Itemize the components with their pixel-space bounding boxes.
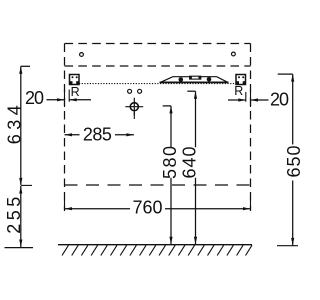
washbasin profile <box>161 77 228 83</box>
countertop dotted line <box>79 83 236 85</box>
dim 650 bottom tick <box>277 245 298 247</box>
dim 760 end ticks <box>65 199 251 210</box>
bracket R left <box>70 75 80 85</box>
svg-text:255: 255 <box>4 197 24 234</box>
ground hatching <box>62 245 252 255</box>
arrow 650 up <box>291 74 294 82</box>
arrow 580 up <box>169 106 172 114</box>
ground line <box>58 244 252 246</box>
svg-text:580: 580 <box>160 146 180 179</box>
svg-text:634: 634 <box>4 105 24 144</box>
arrow 760 right <box>243 207 251 210</box>
dim 20 left: shafts <box>47 99 92 101</box>
arrow 634 up <box>19 66 22 74</box>
dim 285 right extension <box>133 112 135 119</box>
svg-text:20: 20 <box>25 88 44 108</box>
faucet supply circle right <box>138 89 142 93</box>
basin overflow slot <box>190 76 201 79</box>
arrow 634 down <box>19 178 22 186</box>
drain crosshair <box>130 103 138 111</box>
small hole circle top-left <box>80 53 84 57</box>
bracket R right <box>236 75 246 85</box>
dim 760 line <box>65 208 251 210</box>
cabinet left dashed edge <box>64 44 66 212</box>
arrow 285 right <box>126 133 134 136</box>
arrow 580 down <box>169 237 172 245</box>
dim 640 vertical line <box>195 91 197 244</box>
dim 285 line <box>65 134 134 136</box>
arrow 650 down <box>291 238 294 246</box>
basin clamp dot right <box>207 77 212 82</box>
cabinet right dashed edge <box>250 44 252 212</box>
svg-text:R: R <box>234 84 243 98</box>
dim 20 left: ticks <box>65 89 70 107</box>
arrow 20L inner left-pointing <box>69 98 77 101</box>
small hole circle top-right <box>232 52 236 56</box>
svg-text:640: 640 <box>180 147 200 179</box>
cabinet bottom dashed edge <box>65 184 251 186</box>
basin clamp dot left <box>179 77 184 82</box>
arrow 760 left <box>65 207 73 210</box>
cabinet second dashed line <box>65 65 251 67</box>
arrow 20L outer right-pointing <box>57 98 65 101</box>
dim 20 right: shafts <box>228 99 269 101</box>
dim 20 right: ticks <box>246 89 251 107</box>
arrow 20R inner right-pointing <box>238 98 246 101</box>
arrow 640 up <box>194 91 197 99</box>
dim 634 top flag <box>21 65 30 67</box>
dim 650 top flag <box>278 73 293 75</box>
arrow 640 down <box>194 237 197 245</box>
svg-text:20: 20 <box>270 89 289 109</box>
arrow 285 left <box>65 133 73 136</box>
dim 580 vertical line <box>170 106 172 244</box>
arrow 255 down <box>19 240 22 248</box>
arrow 255 up <box>19 186 22 194</box>
faucet supply circle left <box>128 89 132 93</box>
arrowheads <box>19 66 294 247</box>
dim 255 bottom tick <box>5 247 34 249</box>
svg-text:650: 650 <box>284 146 300 178</box>
arrow 20R outer left-pointing <box>251 98 259 101</box>
dim 650 vertical line <box>292 74 294 245</box>
dim 634/255 vertical line <box>20 66 22 247</box>
dim 634/255 middle tick <box>21 184 32 186</box>
svg-text:760: 760 <box>133 197 163 217</box>
dim 580 top flag <box>163 105 171 107</box>
dim 640 top flag <box>187 90 195 92</box>
cabinet top dashed edge <box>65 43 251 45</box>
svg-text:R: R <box>71 85 80 99</box>
svg-text:285: 285 <box>83 125 112 145</box>
